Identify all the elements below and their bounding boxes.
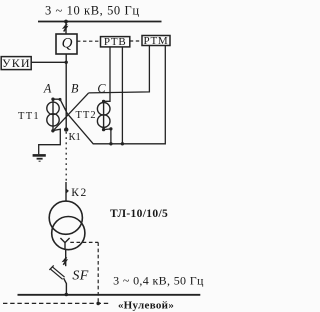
dashed link РТВ to РТМ [130, 40, 142, 42]
transformer T1 winding 2 [52, 217, 85, 250]
breaker SF tick [49, 265, 53, 270]
dashed link Q to РТВ [77, 40, 101, 42]
wire: 0.4 kV bus [18, 294, 201, 296]
wire: SF to 0.4kV bus [64, 278, 67, 294]
svg-text:A: A [43, 82, 52, 96]
node K1 dot [64, 127, 68, 131]
svg-text:РТВ: РТВ [104, 36, 127, 48]
svg-text:ТЛ-10/10/5: ТЛ-10/10/5 [110, 208, 168, 220]
svg-text:3 ~ 10 кВ, 50 Гц: 3 ~ 10 кВ, 50 Гц [45, 4, 140, 18]
arrow (lightning) above SF [63, 257, 66, 265]
arrow (lightning) at bus tap [64, 24, 67, 32]
wire: B phase line Q down to K1 [65, 54, 67, 131]
wire: dashed neutral bus [3, 302, 111, 304]
wye symbol [60, 238, 69, 249]
CT TT1 primary line [52, 99, 54, 132]
junction on bus [64, 20, 68, 24]
CT TT1 windings [47, 102, 59, 114]
wire: РТВ right leg [121, 47, 123, 144]
wire: K2 to transformer [65, 182, 67, 201]
node K2 arrow [66, 188, 69, 193]
wire: dotted K1 to K2 [65, 132, 67, 182]
svg-text:К1: К1 [69, 132, 81, 143]
wire: transformer to SF [65, 250, 67, 267]
junction УКИ wire [65, 61, 68, 64]
svg-text:3 ~ 0,4 кВ, 50 Гц: 3 ~ 0,4 кВ, 50 Гц [113, 274, 204, 288]
wire: diagonal D2 from C to TT1 bottom [54, 93, 88, 130]
svg-text:ТТ2: ТТ2 [76, 110, 97, 121]
svg-text:УКИ: УКИ [2, 56, 31, 70]
svg-text:«Нулевой»: «Нулевой» [118, 300, 174, 312]
wire: TT2 bottom lead [104, 129, 111, 144]
wire: bus to Q [65, 22, 67, 35]
svg-text:РТМ: РТМ [143, 35, 168, 47]
wire: TT1 top to K1 cross to lower bus to РТМ right leg [53, 46, 165, 144]
svg-text:SF: SF [72, 268, 88, 283]
ground symbol [33, 154, 46, 157]
breaker SF blade [52, 268, 64, 278]
svg-text:К2: К2 [71, 187, 87, 199]
wire: C horizontal to РТМ left leg [89, 46, 150, 93]
wire: 10 kV bus [38, 21, 162, 23]
CT TT2 primary line [103, 101, 105, 129]
svg-text:B: B [71, 82, 79, 96]
wire УКИ to B line [31, 61, 66, 63]
svg-text:ТТ1: ТТ1 [18, 111, 40, 122]
svg-text:Q: Q [62, 36, 73, 52]
transformer T1 winding 1 [49, 201, 82, 234]
relay РТМ box [142, 36, 170, 46]
relay РТВ box [101, 37, 130, 47]
wire: dashed neutral from wye [70, 241, 98, 243]
CT TT2 windings [97, 103, 110, 116]
wire: TT1 bottom to ground [39, 129, 61, 154]
breaker Q box [56, 34, 77, 54]
device УКИ box [1, 57, 31, 70]
wire: РТВ left leg to TT2 top [104, 47, 110, 101]
